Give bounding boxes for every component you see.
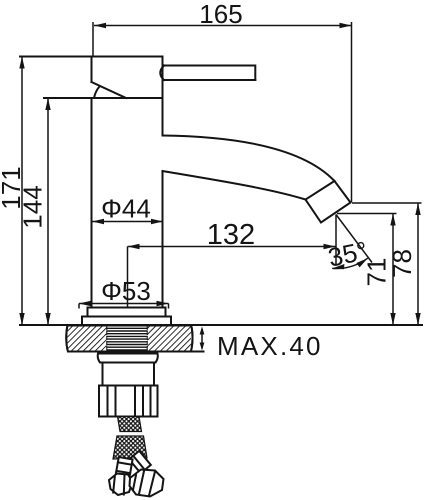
svg-text:MAX.40: MAX.40 xyxy=(217,331,323,361)
svg-text:Φ53: Φ53 xyxy=(101,276,151,306)
svg-text:Φ44: Φ44 xyxy=(101,194,151,224)
svg-text:78: 78 xyxy=(387,249,417,278)
svg-text:144: 144 xyxy=(18,185,48,228)
svg-text:165: 165 xyxy=(199,0,242,29)
svg-text:132: 132 xyxy=(207,219,255,251)
